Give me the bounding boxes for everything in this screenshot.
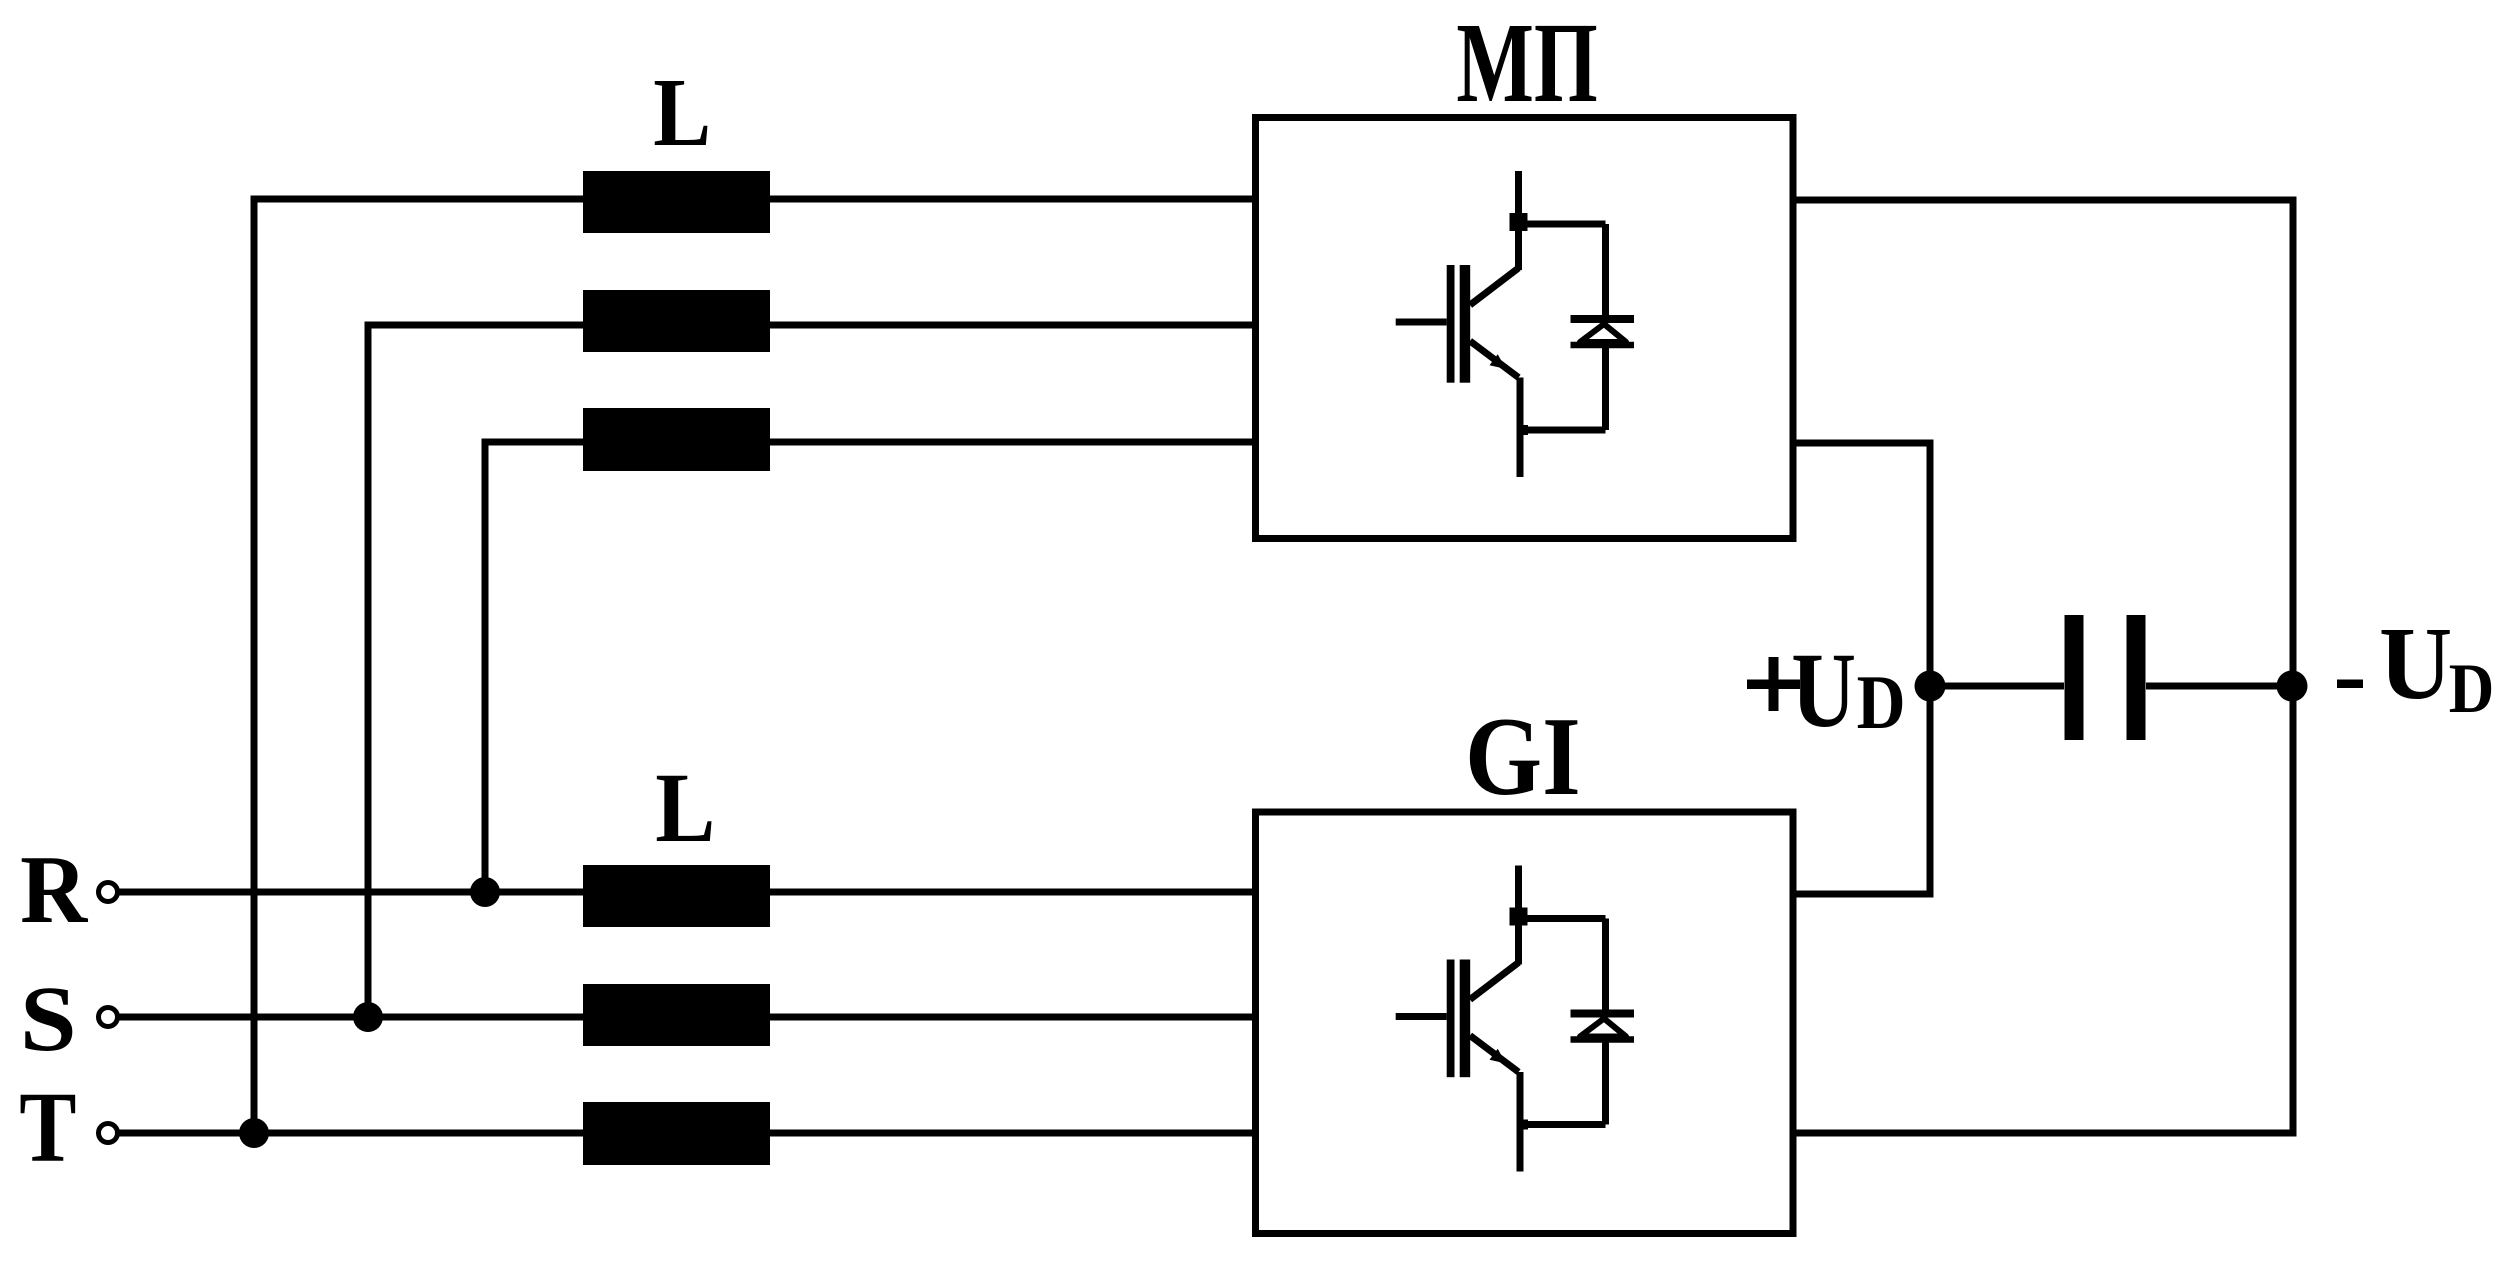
svg-text:T: T bbox=[19, 1073, 76, 1184]
svg-text:U: U bbox=[1791, 632, 1856, 750]
svg-text:GI: GI bbox=[1465, 694, 1581, 818]
svg-text:D: D bbox=[2449, 649, 2494, 728]
svg-text:L: L bbox=[653, 59, 711, 167]
svg-text:R: R bbox=[20, 835, 88, 944]
svg-text:S: S bbox=[20, 968, 77, 1071]
svg-text:U: U bbox=[2379, 606, 2452, 721]
svg-text:MΠ: MΠ bbox=[1456, 0, 1597, 126]
svg-text:L: L bbox=[655, 752, 715, 863]
svg-text:D: D bbox=[1857, 659, 1906, 745]
